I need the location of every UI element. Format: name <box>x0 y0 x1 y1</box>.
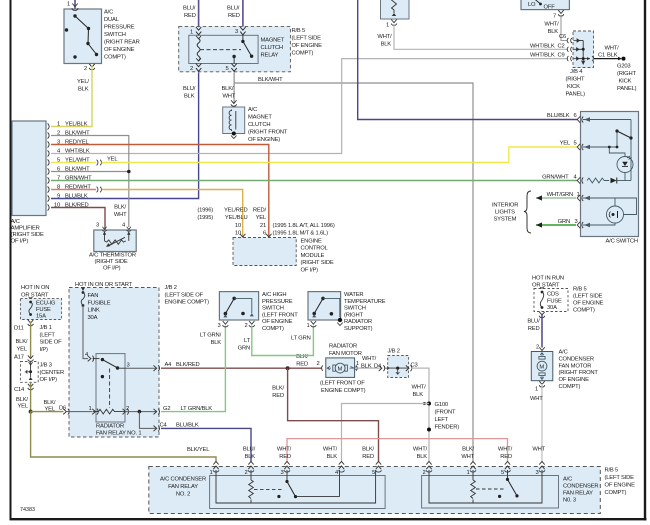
svg-text:BLU/: BLU/ <box>527 319 540 325</box>
svg-text:YEL/BLU: YEL/BLU <box>225 215 248 221</box>
svg-text:C1: C1 <box>598 53 605 59</box>
wire BLK/WHT pin 2 to thermistor <box>51 136 129 228</box>
svg-text:RADIATOR: RADIATOR <box>329 344 357 350</box>
svg-text:RED: RED <box>228 13 240 19</box>
svg-text:GRN/WHT: GRN/WHT <box>542 174 569 180</box>
svg-text:WHT/BLK: WHT/BLK <box>530 43 555 49</box>
wire WHT condenser motor to relay3 pin 3 <box>530 384 546 462</box>
A/C switch internal circuit <box>583 117 637 227</box>
relay 2 switch arm <box>277 480 297 498</box>
magnet clutch relay inner box <box>189 35 258 63</box>
J/B4 C9 junction <box>567 56 593 61</box>
svg-text:YEL: YEL <box>18 404 29 410</box>
svg-text:FENDER): FENDER) <box>435 425 460 431</box>
svg-text:YEL: YEL <box>45 407 56 413</box>
wire LT GRN HP switch pin 2 to WT switch pin 1 <box>238 326 314 356</box>
svg-text:A/C HIGH: A/C HIGH <box>262 292 286 298</box>
wire YEL pin5 splice to A/C switch pin 6 <box>102 141 579 163</box>
blower switch LO OFF box <box>521 0 569 35</box>
relay 3 actuator dashed <box>476 488 505 490</box>
svg-text:OF ENGINE: OF ENGINE <box>605 483 636 489</box>
svg-text:BLK: BLK <box>607 53 618 59</box>
svg-text:5: 5 <box>501 470 504 476</box>
A4 connector and wire BLK/RED to radiator fan motor <box>125 362 200 371</box>
svg-text:OF ENGINE: OF ENGINE <box>104 47 135 53</box>
page border right <box>644 0 646 520</box>
svg-text:LO: LO <box>528 2 536 8</box>
radiator fan relay no.1 label <box>96 423 141 436</box>
svg-text:OF I/P): OF I/P) <box>40 377 58 383</box>
wire WHT/RED relay2 pin3 to relay3 pin 5 <box>277 439 513 462</box>
svg-text:OF I/P): OF I/P) <box>103 266 121 272</box>
svg-text:(1995 1.8L M/T & 1.6L): (1995 1.8L M/T & 1.6L) <box>273 230 329 236</box>
A/C magnet clutch <box>223 100 245 138</box>
wire BLU/RED to relay pin 3 <box>227 0 243 27</box>
A/C condenser fan motor <box>531 347 553 392</box>
amplifier pin connectors <box>48 124 50 211</box>
ECU-IG fuse box <box>20 299 61 320</box>
svg-text:RED: RED <box>362 454 374 460</box>
svg-text:FUSIBLE: FUSIBLE <box>88 300 111 306</box>
svg-text:3: 3 <box>235 29 238 35</box>
svg-text:5: 5 <box>574 141 577 147</box>
svg-text:(LEFT FRONT OF: (LEFT FRONT OF <box>320 381 365 387</box>
svg-text:BLU/: BLU/ <box>227 6 240 12</box>
svg-text:BLU/: BLU/ <box>183 86 196 92</box>
svg-text:2: 2 <box>245 323 248 329</box>
wire YEL/BLK pressure switch to amplifier pin 1 <box>51 66 92 127</box>
svg-text:6: 6 <box>574 113 577 119</box>
A/C switch pin connectors <box>577 116 583 228</box>
relay 2 pin connectors <box>213 461 382 472</box>
svg-text:OF ENGINE: OF ENGINE <box>573 301 604 307</box>
svg-text:FAN MOTOR: FAN MOTOR <box>329 351 362 357</box>
svg-text:BLK/: BLK/ <box>272 386 284 392</box>
svg-text:KICK: KICK <box>619 79 632 85</box>
svg-text:2: 2 <box>244 470 247 476</box>
svg-text:BLK: BLK <box>211 340 222 346</box>
blower resistor box <box>377 0 409 48</box>
svg-text:R/B 5: R/B 5 <box>292 28 306 34</box>
svg-text:BLK/: BLK/ <box>16 397 28 403</box>
svg-text:7: 7 <box>553 14 556 20</box>
relay coil <box>196 36 201 61</box>
relay 2 inner box <box>210 476 386 509</box>
radiator fan relay no.1 box <box>96 354 125 422</box>
svg-text:10: 10 <box>235 223 241 229</box>
svg-text:A/C: A/C <box>563 477 572 483</box>
relay1 coil <box>88 406 129 415</box>
svg-text:LINK: LINK <box>88 308 100 314</box>
HOT IN ON OR START label left <box>21 285 49 301</box>
svg-text:9: 9 <box>57 193 60 199</box>
svg-text:OF I/P): OF I/P) <box>11 239 29 245</box>
svg-text:5: 5 <box>372 470 375 476</box>
J/B 2 connector box D4/C3 <box>379 349 418 378</box>
relay 2 actuator dashed <box>254 489 284 491</box>
svg-text:1: 1 <box>356 361 359 367</box>
svg-text:OF I/P): OF I/P) <box>301 267 319 273</box>
R/B 5 label right <box>573 287 604 314</box>
svg-text:BLK: BLK <box>245 454 256 460</box>
svg-text:1: 1 <box>67 2 70 8</box>
svg-text:30A: 30A <box>88 315 98 321</box>
svg-text:RED: RED <box>279 454 291 460</box>
svg-text:(RIGHT SIDE: (RIGHT SIDE <box>11 232 44 238</box>
page border bottom <box>10 518 647 520</box>
svg-text:AMPLIFIER: AMPLIFIER <box>11 226 40 232</box>
svg-text:R/B 5: R/B 5 <box>605 468 619 474</box>
svg-text:3: 3 <box>535 470 538 476</box>
wire BLU/RED to relay pin 1 <box>183 0 199 27</box>
wire BLK J/B4 C1 to G203 <box>594 46 619 59</box>
svg-text:A/C: A/C <box>104 10 113 16</box>
svg-text:(RIGHT: (RIGHT <box>566 77 586 83</box>
svg-text:YEL/RED: YEL/RED <box>224 208 248 214</box>
wire BLK/YEL fuse to J/B3 <box>14 320 33 362</box>
svg-text:WHT/: WHT/ <box>413 446 428 452</box>
svg-text:RED/: RED/ <box>253 208 267 214</box>
engine control module box <box>233 234 296 266</box>
relay 2 internals <box>216 470 376 503</box>
J/B 2 label <box>165 285 210 306</box>
svg-text:J/B 4: J/B 4 <box>570 69 583 75</box>
svg-text:2: 2 <box>422 470 425 476</box>
svg-text:BLU/: BLU/ <box>183 6 196 12</box>
wire WHT/BLK blower switch pin 7 to J/B4 C6 <box>559 15 567 41</box>
svg-text:BLK: BLK <box>381 42 392 48</box>
svg-text:RED: RED <box>528 326 540 332</box>
svg-text:SWITCH: SWITCH <box>344 306 366 312</box>
J/B 2 big dashed box <box>69 288 159 438</box>
svg-text:RADIATOR: RADIATOR <box>96 423 124 429</box>
svg-text:HOT IN ON: HOT IN ON <box>21 285 49 291</box>
svg-text:SUPPORT): SUPPORT) <box>344 326 373 332</box>
svg-text:OR START: OR START <box>21 292 49 298</box>
A/C switch diode symbol <box>611 178 617 184</box>
svg-text:BLK: BLK <box>548 29 559 35</box>
svg-text:RADIATOR: RADIATOR <box>344 319 372 325</box>
svg-text:CONDENSER: CONDENSER <box>559 356 594 362</box>
svg-text:1: 1 <box>307 323 310 329</box>
svg-text:FUSE: FUSE <box>547 299 562 305</box>
wire BLK/WHT pin 6 <box>51 170 131 174</box>
svg-text:(LEFT SIDE: (LEFT SIDE <box>605 475 635 481</box>
svg-text:(RIGHT SIDE: (RIGHT SIDE <box>95 259 128 265</box>
svg-text:3: 3 <box>96 223 99 229</box>
svg-text:LT: LT <box>244 338 251 344</box>
A/C switch LED symbol <box>622 156 632 166</box>
wire WHT/BLK amplifier pin 4 to J/B4 C9 <box>51 52 568 153</box>
svg-text:RED: RED <box>184 13 196 19</box>
diagram number 74383 <box>20 507 35 513</box>
A/C amplifier label <box>11 219 44 245</box>
ECM wire labels <box>197 208 335 237</box>
svg-text:SWITCH: SWITCH <box>262 306 284 312</box>
engine control module label <box>301 239 334 274</box>
svg-text:BLK/WHT: BLK/WHT <box>258 77 283 83</box>
svg-text:SIDE OF: SIDE OF <box>40 340 63 346</box>
svg-text:WHT: WHT <box>114 212 127 218</box>
svg-text:OFF: OFF <box>544 5 556 11</box>
svg-text:MAGNET: MAGNET <box>261 38 285 44</box>
wire WHT/BLK resistor to J/B4 C2 <box>394 24 568 49</box>
svg-text:BLK/YEL: BLK/YEL <box>187 447 210 453</box>
relay actuator dashed link <box>200 49 241 51</box>
svg-text:3: 3 <box>218 323 221 329</box>
svg-text:ENGINE COMPT): ENGINE COMPT) <box>165 300 210 306</box>
wire BLU/BLK relay pin2 to amplifier pin 9 <box>51 73 199 199</box>
svg-text:LEFT: LEFT <box>435 417 449 423</box>
svg-text:1: 1 <box>209 470 212 476</box>
svg-text:NO. 2: NO. 2 <box>176 492 190 498</box>
thermistor riser label BLK/WHT <box>114 205 127 219</box>
svg-text:BLK/: BLK/ <box>44 400 56 406</box>
svg-text:BLK/: BLK/ <box>362 446 374 452</box>
fan fusible link <box>81 287 111 321</box>
J/B 3 label <box>40 363 65 384</box>
amplifier pin labels <box>54 121 92 208</box>
wire BLK/YEL junction to D6 <box>31 400 66 413</box>
svg-text:LT GRN/: LT GRN/ <box>200 333 222 339</box>
svg-text:(LEFT: (LEFT <box>40 332 56 338</box>
svg-text:(1996): (1996) <box>197 208 213 214</box>
J/B4 C2 junction <box>567 47 585 52</box>
svg-text:C2: C2 <box>558 43 565 49</box>
svg-text:WHT: WHT <box>461 454 474 460</box>
relay1 actuator dashed <box>109 369 111 409</box>
svg-text:SWITCH: SWITCH <box>104 32 126 38</box>
water temperature switch label <box>344 292 386 332</box>
svg-text:KICK: KICK <box>567 84 580 90</box>
A/C amplifier box <box>12 121 46 216</box>
svg-text:BLU/BLK: BLU/BLK <box>547 113 570 119</box>
A/C thermistor <box>94 223 136 252</box>
svg-text:WHT/BLK: WHT/BLK <box>65 148 90 154</box>
svg-text:BLK/: BLK/ <box>296 354 308 360</box>
A/C switch box <box>581 112 639 245</box>
wire BLK/RED junction to relay2 pin 5 <box>272 368 378 461</box>
D6 connector on J/B2 edge <box>63 409 92 415</box>
svg-text:(CENTER: (CENTER <box>40 370 65 376</box>
svg-text:C14: C14 <box>14 387 25 393</box>
wire WHT/BLK C3 to G100 down to relay3 pin 2 <box>411 368 429 461</box>
svg-text:RED: RED <box>296 361 308 367</box>
J/B 4 label <box>566 69 586 98</box>
svg-text:M: M <box>539 365 544 371</box>
svg-text:(LEFT SIDE: (LEFT SIDE <box>292 36 322 42</box>
svg-text:R/B 5: R/B 5 <box>573 287 587 293</box>
wire WHT/BLK motor pin1 to J/B2 D4 <box>358 356 382 370</box>
svg-text:1: 1 <box>466 470 469 476</box>
svg-text:1: 1 <box>57 121 60 127</box>
A/C condenser fan relay no.3 label <box>563 477 598 504</box>
svg-text:3: 3 <box>280 470 283 476</box>
svg-text:1: 1 <box>190 30 193 36</box>
label LT GRN/BLK <box>200 333 222 347</box>
svg-text:6: 6 <box>263 230 266 236</box>
svg-text:LIGHTS: LIGHTS <box>495 210 515 216</box>
svg-text:BLK/: BLK/ <box>16 339 28 345</box>
relay pin 3 connector <box>235 27 246 35</box>
svg-text:2: 2 <box>317 361 320 367</box>
svg-text:WHT/: WHT/ <box>377 34 392 40</box>
A/C high pressure switch <box>218 292 259 329</box>
svg-text:A/C: A/C <box>559 350 568 356</box>
A/C high pressure switch label <box>262 292 298 332</box>
svg-text:BLK/: BLK/ <box>114 205 126 211</box>
wire BLU/BLK from top to A/C switch pin 8 <box>358 0 578 120</box>
svg-text:(1995 1.8L A/T, ALL 1996): (1995 1.8L A/T, ALL 1996) <box>273 223 335 229</box>
svg-text:J/B 2: J/B 2 <box>165 285 177 291</box>
svg-text:BLK: BLK <box>361 364 372 370</box>
R/B 5 label top <box>292 28 323 57</box>
svg-text:G203: G203 <box>617 64 630 70</box>
svg-text:MODULE: MODULE <box>301 253 325 259</box>
svg-text:BLK/: BLK/ <box>462 446 474 452</box>
svg-text:FUSE: FUSE <box>36 307 51 313</box>
A/C thermistor label <box>89 253 136 272</box>
svg-text:D11: D11 <box>14 326 24 332</box>
svg-text:J/B 3: J/B 3 <box>40 363 52 369</box>
svg-text:PANEL): PANEL) <box>566 92 586 98</box>
svg-text:(RIGHT REAR: (RIGHT REAR <box>104 40 140 46</box>
svg-text:YEL/: YEL/ <box>77 79 89 85</box>
relay 3 inner box <box>422 476 559 509</box>
svg-text:21: 21 <box>260 223 266 229</box>
svg-text:WHT/: WHT/ <box>544 22 559 28</box>
svg-text:3: 3 <box>127 363 130 369</box>
label BLU/BLK relay2 pin 2 <box>243 446 256 460</box>
wire RED/YEL pin 3 to ECM <box>51 145 269 238</box>
svg-text:MAGNET: MAGNET <box>248 115 272 121</box>
A/C switch contact arm <box>608 129 633 148</box>
interior lights system brace <box>492 191 531 233</box>
svg-text:WHT/GRN: WHT/GRN <box>547 192 573 198</box>
A/C dual pressure switch label <box>104 10 140 61</box>
svg-text:WHT/: WHT/ <box>362 356 377 362</box>
svg-text:WHT/: WHT/ <box>277 446 292 452</box>
svg-text:RELAY: RELAY <box>261 53 279 59</box>
svg-text:(RIGHT SIDE: (RIGHT SIDE <box>301 260 334 266</box>
relay pin 2 connector <box>190 64 201 73</box>
HOT IN RUN OR START label <box>532 275 564 291</box>
J/B4 internal vertical <box>581 41 585 66</box>
svg-text:SYSTEM: SYSTEM <box>494 217 517 223</box>
wire GRN A/C switch pin 3 <box>536 219 578 228</box>
svg-text:YEL: YEL <box>256 215 267 221</box>
wire BLU/RED stub to pressure switch pin 1 <box>67 0 75 9</box>
A/C switch lamp symbol <box>609 211 617 218</box>
svg-text:1: 1 <box>386 23 389 29</box>
svg-text:30A: 30A <box>547 305 557 311</box>
svg-text:CDS: CDS <box>547 292 559 298</box>
svg-text:COMPT): COMPT) <box>605 490 627 496</box>
wire RED/WHT pin 8 with splice <box>51 187 101 193</box>
svg-text:WHT/: WHT/ <box>412 385 427 391</box>
svg-text:FAN RELAY: FAN RELAY <box>563 491 593 497</box>
svg-text:GRN: GRN <box>238 346 250 352</box>
svg-text:2: 2 <box>190 66 193 72</box>
svg-text:BLK/: BLK/ <box>222 86 234 92</box>
svg-text:BLU/BLK: BLU/BLK <box>65 193 88 199</box>
A/C condenser fan motor label <box>559 350 599 391</box>
svg-text:I/P): I/P) <box>40 347 49 353</box>
svg-text:BLK: BLK <box>78 87 89 93</box>
svg-text:ENGINE COMPT): ENGINE COMPT) <box>321 388 366 394</box>
svg-text:(RIGHT: (RIGHT <box>617 71 637 77</box>
wire BLK/YEL junction down to relay 2 pin 1 <box>31 412 216 462</box>
svg-text:BLK/RED: BLK/RED <box>176 362 200 368</box>
svg-text:COMPT): COMPT) <box>573 308 595 314</box>
R/B 5 bottom dashed box <box>149 467 601 514</box>
svg-text:A/C CONDENSER: A/C CONDENSER <box>160 477 206 483</box>
svg-text:ENGINE: ENGINE <box>301 239 322 245</box>
svg-text:15A: 15A <box>36 314 46 320</box>
svg-text:COMPT): COMPT) <box>262 326 284 332</box>
svg-text:WHT: WHT <box>532 446 545 452</box>
svg-text:RED: RED <box>500 454 512 460</box>
svg-text:PANEL): PANEL) <box>617 86 637 92</box>
ground G100 <box>424 402 460 431</box>
J/B 3 box <box>20 362 38 383</box>
relay 2 pin numbers <box>209 470 375 476</box>
svg-text:J/B 1: J/B 1 <box>40 325 52 331</box>
svg-text:N0. 3: N0. 3 <box>563 498 576 504</box>
radiator fan motor <box>317 344 366 395</box>
svg-text:A/C SWITCH: A/C SWITCH <box>606 239 638 245</box>
relay pin 5 connector <box>226 64 237 73</box>
wire BLK/WHT branch to bottom relay 3 <box>234 77 473 462</box>
svg-text:COMPT): COMPT) <box>559 384 581 390</box>
svg-text:(RIGHT FRONT: (RIGHT FRONT <box>559 370 599 376</box>
svg-text:2: 2 <box>536 345 539 351</box>
svg-text:(1995): (1995) <box>197 215 213 221</box>
svg-text:(FRONT: (FRONT <box>435 410 456 416</box>
J/B4 C6 connector and internal <box>567 38 583 43</box>
svg-text:(RIGHT FRONT: (RIGHT FRONT <box>248 130 288 136</box>
svg-text:A4: A4 <box>165 362 173 368</box>
svg-text:FAN RELAY: FAN RELAY <box>168 484 198 490</box>
svg-text:CLUTCH: CLUTCH <box>261 45 283 51</box>
svg-text:WHT/: WHT/ <box>498 446 513 452</box>
svg-text:5: 5 <box>226 66 229 72</box>
svg-text:WHT: WHT <box>530 396 543 402</box>
svg-text:OF ENGINE: OF ENGINE <box>559 377 590 383</box>
svg-text:(LEFT SIDE OF: (LEFT SIDE OF <box>165 292 204 298</box>
svg-text:COMPT): COMPT) <box>292 51 314 57</box>
svg-text:WHT: WHT <box>223 94 236 100</box>
svg-text:OF ENGINE: OF ENGINE <box>292 43 323 49</box>
wire BLU/BLK relay1 branch to C4 and relay2 pin 2 <box>139 412 251 462</box>
R/B 5 bottom label <box>605 468 636 497</box>
svg-text:FAN MOTOR: FAN MOTOR <box>559 363 592 369</box>
svg-text:LT GRN: LT GRN <box>291 336 311 342</box>
svg-text:BLK: BLK <box>417 454 428 460</box>
svg-text:2: 2 <box>84 66 87 72</box>
svg-text:A/C: A/C <box>11 219 20 225</box>
svg-text:C9: C9 <box>558 52 565 58</box>
wire BLK/RED pin 10 to thermistor <box>51 208 105 230</box>
HOT IN ON OR START label JB2 <box>75 282 133 288</box>
svg-text:WATER: WATER <box>344 292 363 298</box>
A/C condenser fan relay no.2 label <box>160 477 206 498</box>
svg-text:M: M <box>338 367 343 373</box>
magnet clutch relay label <box>261 38 285 59</box>
svg-text:BLK: BLK <box>327 454 338 460</box>
magnet clutch relay R/B5 dashed box <box>179 27 291 72</box>
relay 3 pin numbers <box>422 470 538 476</box>
